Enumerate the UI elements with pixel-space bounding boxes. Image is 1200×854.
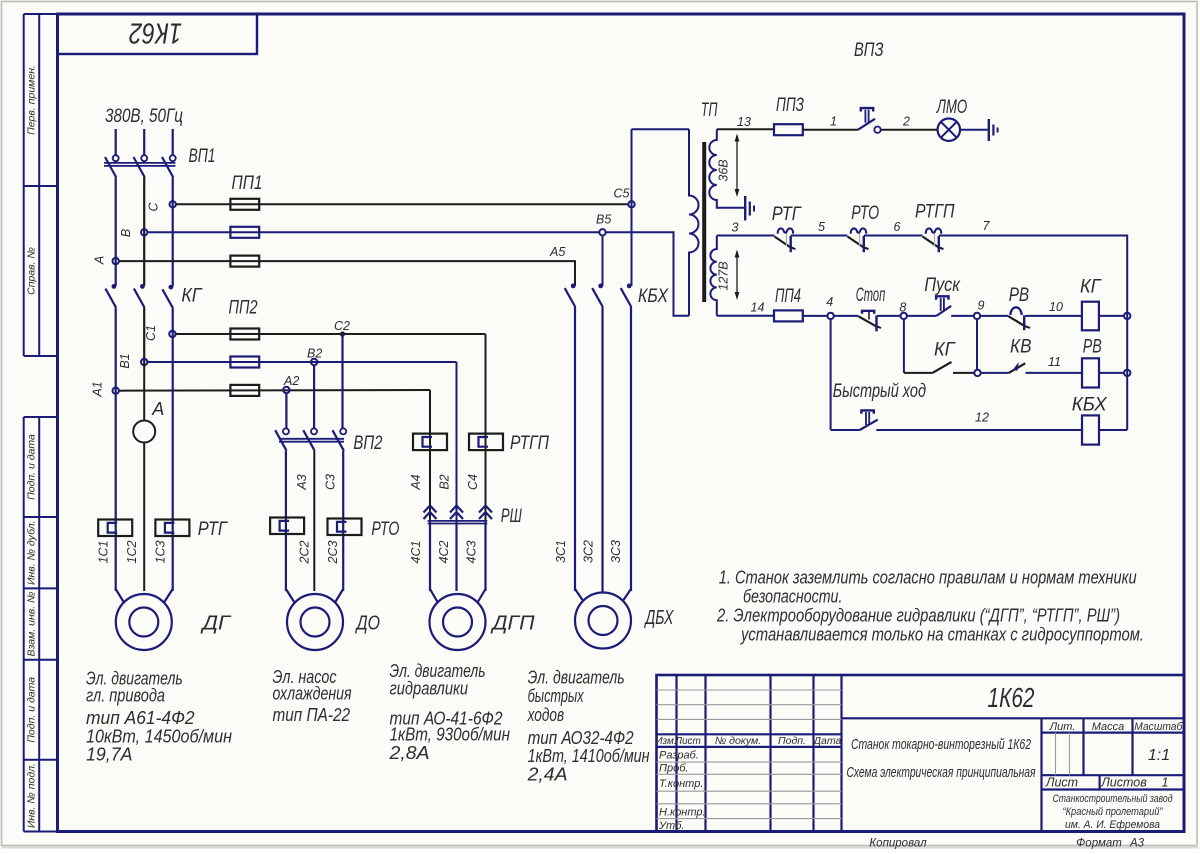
svg-text:1: 1	[830, 115, 837, 129]
svg-text:Быстрый ход: Быстрый ход	[833, 381, 926, 402]
wire 1C3 down	[172, 334, 174, 591]
switch VP1 pole 3	[170, 155, 176, 161]
svg-text:охлаждения: охлаждения	[273, 684, 352, 704]
svg-text:А3: А3	[295, 474, 309, 490]
fuse PP4	[774, 310, 803, 321]
relay RTGP heater 1	[413, 434, 447, 451]
ground after lamp	[988, 119, 990, 141]
svg-text:безопасности.: безопасности.	[743, 587, 842, 607]
svg-text:РШ: РШ	[501, 506, 522, 527]
node A2	[283, 387, 289, 393]
wire 1 KG to row C1	[115, 308, 117, 391]
svg-text:Подп.: Подп.	[778, 735, 806, 747]
svg-text:ПП2: ПП2	[229, 298, 258, 319]
button Pusk actuator	[936, 296, 948, 299]
contactor KG pole 2	[140, 284, 145, 289]
svg-text:КБХ: КБХ	[638, 286, 669, 307]
svg-text:Подп. и дата: Подп. и дата	[26, 434, 38, 500]
svg-text:Инв. № подл.: Инв. № подл.	[26, 763, 38, 828]
contactor KBX pole 2	[598, 284, 603, 289]
svg-text:ТП: ТП	[701, 100, 718, 121]
svg-text:2: 2	[902, 115, 910, 129]
wire 2	[881, 129, 938, 131]
svg-text:В2: В2	[307, 347, 322, 361]
svg-text:гидравлики: гидравлики	[390, 679, 469, 699]
wire node4 drop	[830, 319, 832, 430]
svg-text:Т.контр.: Т.контр.	[659, 778, 703, 790]
wire node8 corner to KG aux	[904, 372, 933, 374]
wire row A to KBX	[119, 261, 575, 286]
title block thin row lines	[657, 690, 1070, 819]
svg-text:тип А61-4Ф2: тип А61-4Ф2	[86, 708, 195, 728]
top stamp box 1K62	[58, 14, 258, 54]
wire 1C1 down	[115, 390, 117, 591]
svg-text:Инв. № дубл.: Инв. № дубл.	[26, 520, 38, 585]
svg-text:3С2: 3С2	[582, 540, 596, 563]
svg-text:1кВт, 1410об/мин: 1кВт, 1410об/мин	[528, 746, 650, 766]
svg-text:РТО: РТО	[371, 519, 399, 540]
switch VP2 pole 2	[311, 428, 317, 434]
button Bystryi khod blade	[860, 420, 878, 430]
fuse PP2 phase A1	[230, 385, 259, 396]
svg-text:Листов: Листов	[1100, 776, 1147, 790]
wire VP2 pole3 down	[342, 451, 344, 591]
svg-text:Копировал: Копировал	[869, 838, 927, 850]
wire KG coil to bus	[1099, 315, 1124, 317]
wire KG aux to node	[953, 372, 975, 374]
svg-text:Формат: Формат	[1076, 838, 1122, 850]
svg-text:Проб.: Проб.	[659, 763, 688, 775]
svg-text:4С1: 4С1	[409, 541, 423, 564]
svg-text:Утб.: Утб.	[658, 820, 684, 832]
connector RSh bar	[428, 520, 488, 522]
fuse PP1 phase B	[230, 227, 259, 238]
fuse PP1 phase A	[230, 256, 259, 267]
wire VP2 pole1 down	[285, 451, 287, 591]
svg-text:им. А. И. Ефремова: им. А. И. Ефремова	[1065, 819, 1160, 831]
relay RTO heater 1	[270, 518, 304, 535]
lamp switch actuator	[861, 108, 873, 111]
svg-text:Пуск: Пуск	[924, 275, 960, 296]
margin graphs bottom box	[24, 417, 58, 832]
svg-text:3С3: 3С3	[609, 540, 623, 563]
wire 11	[1026, 372, 1083, 374]
wire 4C1 into motor	[430, 589, 438, 603]
contactor KBX pole 3	[627, 284, 632, 289]
svg-text:1:1: 1:1	[1148, 747, 1170, 764]
wire row C to C5	[176, 203, 629, 205]
svg-text:КГ: КГ	[181, 286, 203, 307]
svg-text:10кВт, 1450об/мин: 10кВт, 1450об/мин	[86, 727, 232, 747]
wire 2 KG to row B1	[143, 308, 145, 363]
node 4	[827, 313, 833, 319]
svg-text:С4: С4	[466, 474, 480, 490]
wire 4C1 down	[429, 524, 431, 592]
dimension arrow 127V	[735, 250, 740, 301]
svg-text:ЛМО: ЛМО	[935, 97, 967, 118]
transformer primary winding	[689, 129, 699, 315]
svg-text:РТГ: РТГ	[198, 519, 228, 540]
svg-text:РТГП: РТГП	[915, 202, 955, 223]
svg-text:гл. привода: гл. привода	[86, 686, 165, 706]
svg-text:Стоп: Стоп	[856, 285, 886, 306]
wire C2 down to VP2	[341, 334, 343, 428]
wire 1C1 into motor	[116, 589, 124, 603]
svg-text:Разраб.: Разраб.	[659, 750, 699, 762]
relay RTGP heater 2	[469, 434, 503, 451]
svg-text:4С2: 4С2	[437, 540, 451, 563]
wire row B to B5	[147, 231, 599, 233]
button Pusk blade	[936, 306, 951, 316]
wire Pusk to node 9	[951, 315, 974, 317]
svg-text:2С3: 2С3	[326, 540, 340, 564]
svg-text:КГ: КГ	[1080, 277, 1102, 298]
svg-text:6: 6	[894, 220, 901, 234]
svg-text:ДО: ДО	[355, 613, 380, 635]
svg-text:В: В	[119, 229, 133, 237]
svg-text:ВП1: ВП1	[189, 146, 216, 167]
svg-text:ДГ: ДГ	[200, 613, 232, 635]
node B	[141, 229, 147, 235]
svg-text:2. Электрооборудование гидравл: 2. Электрооборудование гидравлики (“ДГП”…	[716, 606, 1120, 626]
switch VP2 pole 3	[340, 428, 346, 434]
wire 3 KG to row C1	[172, 308, 174, 334]
svg-text:Н.контр.: Н.контр.	[659, 807, 706, 819]
ground after 36V winding	[744, 196, 746, 221]
svg-text:А: А	[93, 256, 107, 265]
svg-text:3С1: 3С1	[554, 540, 568, 563]
svg-text:Схема электрическая принципиал: Схема электрическая принципиальная	[847, 765, 1036, 781]
svg-text:11: 11	[1048, 355, 1061, 369]
svg-text:1С3: 1С3	[154, 540, 168, 563]
svg-text:РВ: РВ	[1009, 285, 1030, 306]
svg-text:РТГ: РТГ	[772, 204, 802, 225]
svg-text:ПП1: ПП1	[232, 173, 263, 194]
wire 1C2 with ammeter	[143, 362, 145, 421]
contact KG aux	[932, 362, 951, 373]
node 9 bottom	[974, 370, 980, 376]
svg-text:ДБХ: ДБХ	[644, 607, 674, 629]
svg-text:Лит.: Лит.	[1049, 721, 1076, 733]
svg-text:3: 3	[732, 221, 739, 235]
svg-text:1: 1	[1162, 776, 1169, 790]
wire 3C3 into motor	[623, 589, 631, 601]
svg-text:9: 9	[978, 299, 985, 313]
wire row C1	[175, 333, 485, 335]
title block outer	[657, 675, 1185, 832]
svg-text:1К62: 1К62	[988, 682, 1035, 713]
svg-text:В5: В5	[596, 212, 611, 226]
bus node at RV	[1124, 370, 1130, 376]
svg-text:1С2: 1С2	[125, 540, 139, 563]
svg-text:А3: А3	[1129, 838, 1145, 850]
svg-text:Масштаб: Масштаб	[1134, 721, 1183, 733]
wire B2 down to VP2	[313, 365, 315, 428]
node 9	[974, 313, 980, 319]
transformer secondary 36V winding	[709, 129, 744, 208]
svg-text:4: 4	[826, 295, 833, 309]
svg-text:380В, 50Гц: 380В, 50Гц	[105, 106, 183, 127]
node B5	[599, 229, 605, 235]
dimension arrow 36V	[735, 134, 740, 198]
svg-text:А2: А2	[283, 374, 299, 388]
wire VP2 pole2 down	[313, 451, 315, 591]
svg-text:8: 8	[899, 301, 906, 315]
svg-text:14: 14	[751, 301, 765, 315]
switch VP1 pole 1	[113, 155, 119, 161]
node B2	[311, 359, 317, 365]
svg-text:А5: А5	[549, 245, 565, 259]
lamp LMO	[938, 119, 960, 141]
node A	[113, 258, 119, 264]
svg-text:Лист: Лист	[1045, 776, 1078, 790]
wire 4C3 into motor	[478, 589, 486, 603]
contactor KG pole 1	[112, 284, 117, 289]
motor DGP	[430, 594, 486, 650]
svg-text:1. Станок заземлить согласно п: 1. Станок заземлить согласно правилам и …	[719, 568, 1137, 588]
wire 3C1 down	[574, 307, 576, 591]
wire 4C3 down	[484, 524, 486, 592]
button Bystryi khod actuator	[861, 410, 873, 413]
svg-text:13: 13	[737, 115, 751, 129]
svg-text:РТО: РТО	[851, 203, 879, 224]
bus node at KG	[1124, 313, 1130, 319]
wire 2C left into motor	[286, 589, 295, 603]
supply wire L2	[143, 129, 145, 155]
svg-text:тип ПА-22: тип ПА-22	[273, 705, 351, 725]
ammeter A	[133, 421, 155, 443]
svg-text:быстрых: быстрых	[528, 686, 585, 706]
wire to node 4	[803, 315, 828, 317]
svg-text:ВПЗ: ВПЗ	[854, 39, 884, 61]
wire node4 to Stop	[834, 315, 859, 317]
svg-text:1С1: 1С1	[97, 541, 111, 564]
wire lamp to ground	[960, 129, 988, 131]
lamp switch VP3 blade	[858, 119, 875, 130]
svg-text:Масса: Масса	[1092, 721, 1125, 733]
contactor KBX pole 1	[571, 284, 576, 289]
title block vertical lines	[677, 675, 1133, 832]
wire row B1	[147, 361, 456, 363]
fuse PP1 phase C	[230, 199, 259, 210]
wire 2C right into motor	[335, 589, 343, 603]
svg-text:4С3: 4С3	[465, 540, 479, 563]
wire 1C3 into motor	[164, 589, 173, 603]
svg-text:РВ: РВ	[1083, 337, 1102, 358]
fuse PP3	[774, 124, 803, 135]
svg-text:тип АО32-4Ф2: тип АО32-4Ф2	[528, 728, 634, 748]
wire pole1 VP1 to KG	[115, 178, 117, 286]
margin graph Perv primen box	[24, 14, 58, 356]
wire 13 left	[717, 128, 774, 130]
svg-text:С1: С1	[144, 325, 158, 341]
svg-text:19,7А: 19,7А	[86, 745, 133, 765]
svg-text:7: 7	[983, 219, 991, 233]
switch VP2 tie bar	[279, 438, 344, 440]
wire 6	[864, 235, 923, 237]
thermal contact RTO	[848, 237, 865, 249]
fuse PP2 phase B1	[230, 357, 259, 368]
contact KV	[1009, 363, 1026, 373]
wire B5 drop to KBX	[602, 235, 604, 286]
svg-text:КВ: КВ	[1010, 337, 1032, 358]
wire A4 heater to RSh	[429, 434, 431, 523]
wire 1	[803, 129, 858, 131]
svg-text:С: С	[147, 202, 161, 212]
wire A2 down to VP2	[285, 393, 287, 428]
button Stop	[859, 316, 878, 327]
wire C5 top jog to transformer	[632, 128, 690, 130]
svg-text:С2: С2	[334, 319, 350, 333]
wire KBX coil to bus	[1099, 429, 1127, 431]
svg-text:С3: С3	[324, 474, 338, 490]
svg-text:Станок токарно-винторезный 1К6: Станок токарно-винторезный 1К62	[851, 737, 1031, 753]
coil RV	[1082, 358, 1099, 387]
node C1	[169, 331, 175, 337]
transformer core	[702, 142, 706, 302]
svg-text:Перв. примен.: Перв. примен.	[26, 65, 38, 135]
svg-text:ДГП: ДГП	[490, 613, 535, 635]
svg-text:ПП4: ПП4	[775, 286, 801, 307]
junction C2	[340, 331, 345, 336]
wire 4C2 down	[455, 524, 457, 592]
coil KG	[1082, 302, 1099, 331]
contact RV time delay	[1009, 316, 1027, 327]
svg-text:5: 5	[818, 220, 825, 234]
wire 3C3 down	[630, 307, 632, 591]
svg-text:В1: В1	[118, 353, 132, 368]
svg-text:10: 10	[1049, 300, 1063, 314]
relay RTG heater 1	[98, 520, 132, 537]
transformer secondary 127V winding	[710, 236, 716, 316]
node A1	[113, 388, 119, 394]
coil KBX	[1082, 415, 1099, 444]
svg-text:ходов: ходов	[527, 705, 564, 725]
svg-text:1кВт, 930об/мин: 1кВт, 930об/мин	[390, 725, 511, 745]
svg-text:Взам. инв. №: Взам. инв. №	[26, 592, 38, 657]
svg-text:Станкостроительный завод: Станкостроительный завод	[1053, 793, 1173, 805]
wire node8 drop	[903, 319, 905, 373]
wire RV coil to bus	[1099, 372, 1124, 374]
svg-text:Подп. и дата: Подп. и дата	[26, 677, 38, 743]
contactor KG pole 3	[169, 285, 174, 290]
switch VP2 pole 1	[283, 428, 289, 434]
wire 14 from transformer	[717, 315, 775, 317]
node 8	[901, 313, 907, 319]
wire node4 corner row12	[831, 429, 860, 431]
fuse PP2 phase C1	[230, 329, 259, 340]
svg-text:12: 12	[975, 411, 989, 425]
thermal contact RTG	[774, 237, 791, 249]
svg-text:А1: А1	[91, 381, 105, 397]
svg-text:С5: С5	[614, 187, 630, 201]
svg-text:36В: 36В	[717, 159, 731, 181]
supply wire L3	[172, 129, 174, 155]
node C	[170, 201, 176, 207]
svg-text:127В: 127В	[717, 261, 731, 290]
svg-text:2,8А: 2,8А	[388, 743, 429, 763]
relay RTG heater 2	[155, 520, 189, 537]
relay RTO heater 2	[328, 519, 362, 536]
wire 3 from transformer	[717, 235, 775, 237]
svg-text:Справ. №: Справ. №	[26, 247, 38, 295]
motor DO	[287, 594, 343, 650]
wire Stop to node 8	[877, 315, 900, 317]
wire to KV	[981, 372, 1009, 374]
wire 12	[876, 429, 1082, 431]
svg-text:Дата: Дата	[813, 735, 842, 747]
wire pole2 VP1 to KG	[143, 178, 145, 286]
switch VP1 pole 2	[141, 155, 147, 161]
svg-text:А: А	[151, 399, 164, 419]
svg-text:№ докум.: № докум.	[715, 735, 761, 747]
title block horizontal lines	[657, 718, 1185, 789]
node C5	[628, 201, 634, 207]
wire B2 branch down to RSh	[456, 362, 458, 523]
wire 5	[791, 235, 848, 237]
svg-text:В2: В2	[438, 474, 452, 489]
wire pole3 VP1 to KG	[172, 178, 174, 287]
svg-text:КБХ: КБХ	[1072, 395, 1108, 416]
wire C4 down	[485, 334, 487, 523]
wire 3C2 down	[601, 307, 603, 594]
svg-text:Изм.: Изм.	[655, 736, 676, 747]
wire 3C1 into motor	[575, 589, 583, 601]
svg-text:2С2: 2С2	[298, 540, 312, 564]
lamp switch terminal	[874, 127, 880, 133]
motor DG	[116, 594, 172, 650]
wire node8 to Pusk	[907, 315, 937, 317]
svg-text:“Красный пролетарий”: “Красный пролетарий”	[1063, 806, 1164, 818]
wire 7 to right bus	[939, 236, 1127, 431]
svg-text:устанавливается только на стан: устанавливается только на станках с гидр…	[739, 625, 1144, 645]
switch VP1 tie bar	[104, 162, 175, 164]
svg-text:РТГП: РТГП	[510, 433, 549, 454]
wire node9 to RV contact	[980, 315, 1009, 317]
wire A4 down	[429, 390, 431, 435]
thermal contact RTGP	[923, 237, 940, 249]
svg-text:2,4А: 2,4А	[527, 765, 568, 785]
svg-text:Лист: Лист	[674, 736, 701, 747]
wire C5 riser	[631, 129, 633, 286]
svg-text:1К62: 1К62	[129, 17, 182, 49]
svg-text:ВП2: ВП2	[353, 433, 382, 454]
svg-text:Эл. двигатель: Эл. двигатель	[528, 668, 625, 688]
svg-text:ППЗ: ППЗ	[776, 95, 804, 116]
wire row A1	[119, 389, 430, 392]
wire node9 drop	[976, 319, 978, 370]
node B1	[141, 359, 147, 365]
connector RSh arrows	[424, 506, 437, 520]
supply wire L1	[115, 129, 117, 155]
svg-text:КГ: КГ	[934, 340, 956, 361]
wire B5 to transformer primary	[606, 232, 690, 315]
svg-text:А4: А4	[409, 474, 423, 490]
wire 10	[1025, 315, 1082, 317]
motor DBX	[575, 593, 631, 649]
